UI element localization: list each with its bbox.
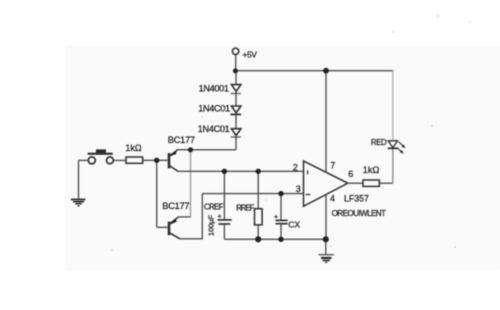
wire left drop vertical <box>78 160 80 198</box>
transistor Q2 BC177 <box>169 217 180 239</box>
power terminal +5V circle <box>232 48 238 54</box>
diode D3 1N4001 <box>231 129 241 137</box>
svg-text:4: 4 <box>330 194 335 204</box>
wire CX top lead <box>280 194 282 221</box>
svg-text:+: + <box>218 214 222 221</box>
capacitor CX plates <box>276 220 288 223</box>
wire CX bottom lead <box>280 224 282 240</box>
op-amp pin3 minus mark <box>306 194 311 196</box>
junction node B pin7 top <box>323 68 329 74</box>
svg-text:BC177: BC177 <box>162 201 189 211</box>
svg-text:2: 2 <box>293 162 298 172</box>
svg-text:+: + <box>274 214 278 221</box>
wire Q2 base horizontal <box>157 226 168 228</box>
wire CREF top lead <box>223 171 225 219</box>
scan background tint <box>65 45 500 270</box>
wire pin3 drop to rail <box>201 194 203 239</box>
svg-text:3: 3 <box>296 184 301 194</box>
wire LED column top <box>392 70 394 141</box>
wire D2 to D3 <box>235 114 237 128</box>
svg-text:1kΩ: 1kΩ <box>125 143 142 153</box>
wire bottom rail right segment <box>224 238 325 240</box>
wire pin3 line <box>202 193 303 195</box>
wire D1 to D2 <box>235 92 237 106</box>
wire CREF bottom lead <box>223 224 225 239</box>
junction node A <box>233 68 238 73</box>
junction RREF bottom <box>255 236 261 242</box>
junction CX bottom <box>278 237 283 242</box>
wire bottom rail <box>180 238 203 240</box>
wire base tie vertical (node D down) <box>156 160 158 227</box>
resistor RREF body <box>255 209 263 225</box>
capacitor CREF plates <box>218 220 232 224</box>
scan speckles <box>111 15 471 251</box>
pushbutton S1 <box>88 149 114 164</box>
wire Q2 emitter horizontal <box>178 216 191 218</box>
wire emitter tie vertical <box>190 150 192 217</box>
op-amp U1 LF357 triangle <box>304 161 348 206</box>
wire Q1 base <box>143 159 168 161</box>
svg-text:CREF: CREF <box>204 202 224 211</box>
svg-text:CX: CX <box>288 220 300 230</box>
svg-text:1kΩ: 1kΩ <box>363 165 380 175</box>
wire pin7 <box>325 71 327 172</box>
wire S1 to left drop <box>79 159 89 161</box>
wire emitter line horizontal <box>177 149 236 151</box>
svg-text:OREOUIWLENT: OREOUIWLENT <box>332 209 386 218</box>
wire LED column bottom <box>392 148 394 183</box>
diode D2 1N4001 <box>230 106 241 114</box>
svg-text:6: 6 <box>348 169 353 179</box>
svg-text:RED: RED <box>371 138 387 147</box>
svg-text:RREF: RREF <box>236 203 254 212</box>
wire top rail <box>235 70 393 72</box>
resistor R1 1k body <box>126 157 143 163</box>
wire pin4 <box>325 195 327 240</box>
wire switch to R1 <box>113 159 126 161</box>
ground G1 <box>71 199 86 207</box>
svg-text:7: 7 <box>330 160 335 170</box>
svg-text:1N4C01: 1N4C01 <box>198 124 230 134</box>
diode D1 1N4001 <box>231 85 241 94</box>
svg-text:+5V: +5V <box>242 49 257 59</box>
wire pin4 to ground <box>325 239 327 254</box>
junction node D base tie <box>154 158 159 163</box>
op-amp pin2 input mark <box>307 170 309 174</box>
LED arrow 2 <box>397 147 404 153</box>
junction pin4 rail <box>323 236 329 242</box>
junction CX top <box>278 191 283 196</box>
LED arrow 1 <box>399 142 406 148</box>
junction CREF top <box>222 169 227 174</box>
wire op-amp output <box>348 182 363 184</box>
svg-text:1N4001: 1N4001 <box>199 83 229 93</box>
ground G2 <box>319 254 334 263</box>
wire D3 down to emitter line <box>235 136 237 150</box>
transistor Q1 BC177 <box>169 150 178 172</box>
LED D4 RED <box>388 141 398 149</box>
wire RREF top lead <box>257 171 259 208</box>
svg-text:100μF: 100μF <box>206 214 215 236</box>
wire R2 to LED column <box>379 182 393 184</box>
svg-text:BC177: BC177 <box>168 135 195 145</box>
junction RREF top <box>256 169 261 174</box>
wire pin2 line (Q1 collector to op-amp) <box>177 170 303 172</box>
resistor R2 1k body <box>363 180 379 186</box>
wire +5V to node A <box>235 55 237 71</box>
junction node C emitter tie <box>188 147 193 152</box>
wire node A to diode D1 <box>235 71 237 85</box>
svg-text:LF357: LF357 <box>344 194 369 204</box>
svg-text:1N4C01: 1N4C01 <box>198 104 230 114</box>
wire RREF bottom lead <box>257 225 259 239</box>
